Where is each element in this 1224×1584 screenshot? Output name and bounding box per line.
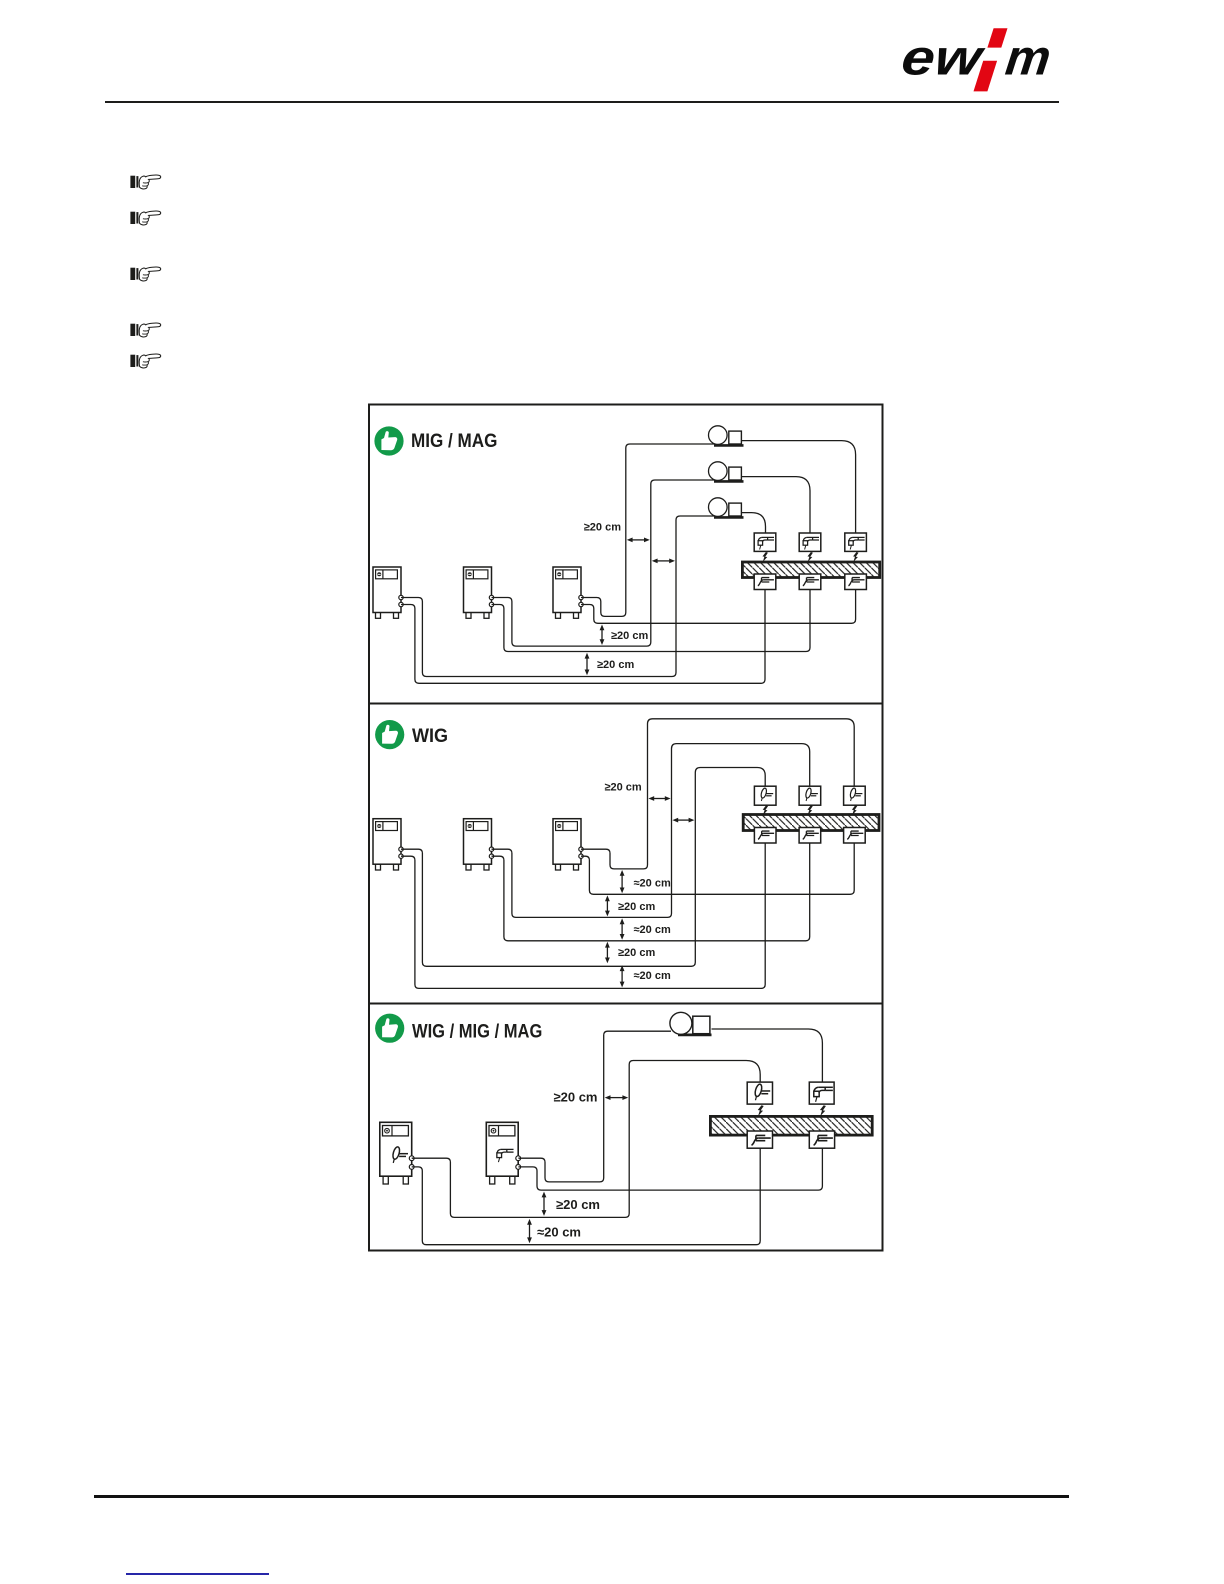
work lead PS3 to clamp 3 (d2) — [581, 843, 854, 895]
arc bolt 2 — [808, 552, 813, 562]
spacing arrow d2 v2 — [606, 900, 608, 911]
svg-text:MIG / MAG: MIG / MAG — [411, 430, 497, 451]
spacing arrow d3 v2 — [529, 1224, 531, 1239]
svg-text:WIG: WIG — [412, 725, 448, 747]
torch cable PS2 to torch 2 (d2) — [492, 744, 810, 918]
workpiece bar (diagram 1) — [742, 562, 879, 578]
torch cable F3 to torch 1 — [741, 513, 766, 533]
footer rule — [94, 1495, 1069, 1498]
spacing arrow d1 h1 — [632, 539, 645, 541]
arc bolt 3 — [853, 552, 858, 562]
spacing arrow d3 h1 — [610, 1097, 624, 1099]
cable PS3 to F1 — [581, 444, 714, 616]
pointing hand note 4 — [130, 320, 162, 339]
svg-text:≈20 cm: ≈20 cm — [537, 1225, 581, 1240]
torch cable feeder to MIG torch (d3) — [712, 1029, 823, 1082]
wire feeder F2 — [709, 462, 744, 482]
work lead PS2 to clamp 2 — [492, 589, 811, 652]
work clamp MIG (d3) — [809, 1131, 834, 1148]
torch cable PS1 to WIG torch (d3) — [412, 1061, 761, 1218]
footer link underline — [126, 1573, 269, 1574]
work lead PS3 to clamp 3 — [581, 589, 856, 623]
thumbs-up badge 3 — [375, 1014, 404, 1043]
power source PS1 WIG (diagram 3) — [380, 1122, 414, 1184]
work lead PS2 to clamp 2 (d2) — [492, 843, 810, 941]
arc bolt 1 — [763, 552, 768, 562]
power source PS3 (diagram 2) — [553, 819, 583, 870]
power source PS2 MIG (diagram 3) — [486, 1122, 520, 1184]
WIG torch 1 — [754, 786, 776, 805]
WIG torch 2 — [799, 786, 821, 805]
pointing hand note 5 — [130, 351, 162, 370]
svg-text:≈20 cm: ≈20 cm — [634, 924, 671, 936]
pointing hand note 1 — [130, 172, 162, 191]
svg-text:≥20 cm: ≥20 cm — [584, 522, 621, 534]
arc bolt 8 — [820, 1105, 826, 1116]
header rule — [105, 101, 1059, 103]
torch cable PS1 to torch 1 (d2) — [401, 768, 765, 967]
work clamp 1 — [754, 574, 776, 590]
work clamp 4 — [754, 828, 776, 844]
torch cable PS3 to torch 3 (d2) — [581, 719, 854, 869]
svg-text:≥20 cm: ≥20 cm — [556, 1197, 600, 1212]
work lead PS1 to clamp 1 — [401, 589, 765, 683]
EWM logo — [895, 18, 1060, 100]
wire feeder F1 — [709, 426, 744, 446]
torch cable F1 to torch 3 — [741, 441, 856, 533]
work clamp 2 — [799, 574, 821, 590]
figure frame — [369, 405, 883, 1251]
power source PS1 (diagram 2) — [373, 819, 403, 870]
work clamp 3 — [845, 574, 867, 590]
spacing arrow d2 v3 — [621, 923, 623, 935]
torch cable F2 to torch 2 — [741, 477, 810, 533]
workpiece bar (diagram 3) — [710, 1116, 872, 1135]
svg-text:≥20 cm: ≥20 cm — [597, 659, 634, 671]
WIG torch (d3) — [747, 1082, 772, 1104]
thumbs-up badge 2 — [375, 720, 404, 749]
workpiece bar (diagram 2) — [743, 815, 879, 831]
power source PS3 (diagram 1) — [553, 567, 583, 618]
MIG torch 2 — [799, 533, 821, 551]
frame divider 2 — [369, 1003, 883, 1005]
pointing hand note 3 — [130, 264, 162, 283]
work lead PS1 to clamp 1 (d2) — [401, 843, 765, 989]
cable PS2 to feeder (d3) — [518, 1031, 671, 1182]
work clamp 6 — [844, 828, 866, 844]
svg-text:≥20 cm: ≥20 cm — [618, 947, 655, 959]
pointing hand note 2 — [130, 208, 162, 227]
spacing arrow d2 v5 — [621, 970, 623, 983]
svg-text:WIG / MIG / MAG: WIG / MIG / MAG — [412, 1020, 542, 1041]
arc bolt 6 — [852, 805, 857, 815]
svg-text:≥20 cm: ≥20 cm — [611, 630, 648, 642]
arc bolt 5 — [807, 805, 812, 815]
work clamp 5 — [799, 828, 821, 844]
svg-text:≈20 cm: ≈20 cm — [634, 878, 671, 890]
spacing arrow d3 v1 — [543, 1196, 545, 1211]
spacing arrow d2 h1 — [653, 798, 666, 800]
spacing arrow d2 v4 — [606, 947, 608, 959]
WIG torch 3 — [844, 786, 866, 805]
spacing arrow d2 h2 — [677, 819, 689, 821]
spacing arrow d1 v1 — [601, 629, 603, 640]
arc bolt 7 — [758, 1105, 764, 1116]
svg-text:≥20 cm: ≥20 cm — [604, 781, 641, 793]
spacing arrow d1 v2 — [586, 658, 588, 671]
svg-text:≥20 cm: ≥20 cm — [554, 1089, 598, 1104]
MIG torch (d3) — [809, 1082, 834, 1104]
work lead PS1 to clamp 1 (d3) — [412, 1148, 761, 1245]
wire feeder (diagram 3) — [670, 1012, 712, 1035]
svg-text:≥20 cm: ≥20 cm — [618, 901, 655, 913]
power source PS1 (diagram 1) — [373, 567, 403, 618]
cable PS2 to F2 — [492, 480, 715, 646]
power source PS2 (diagram 1) — [464, 567, 494, 618]
cable PS1 to F3 — [401, 516, 714, 677]
work clamp WIG (d3) — [747, 1131, 772, 1148]
arc bolt 4 — [763, 805, 768, 815]
svg-text:≈20 cm: ≈20 cm — [634, 970, 671, 982]
frame divider 1 — [369, 703, 883, 705]
spacing arrow d2 v1 — [621, 875, 623, 889]
wire feeder F3 — [709, 498, 744, 518]
spacing arrow d1 h2 — [657, 560, 671, 562]
work lead PS2 to clamp 2 (d3) — [518, 1148, 822, 1191]
thumbs-up badge 1 — [374, 426, 403, 455]
MIG torch 3 — [845, 533, 867, 551]
MIG torch 1 — [754, 533, 776, 551]
power source PS2 (diagram 2) — [464, 819, 494, 870]
